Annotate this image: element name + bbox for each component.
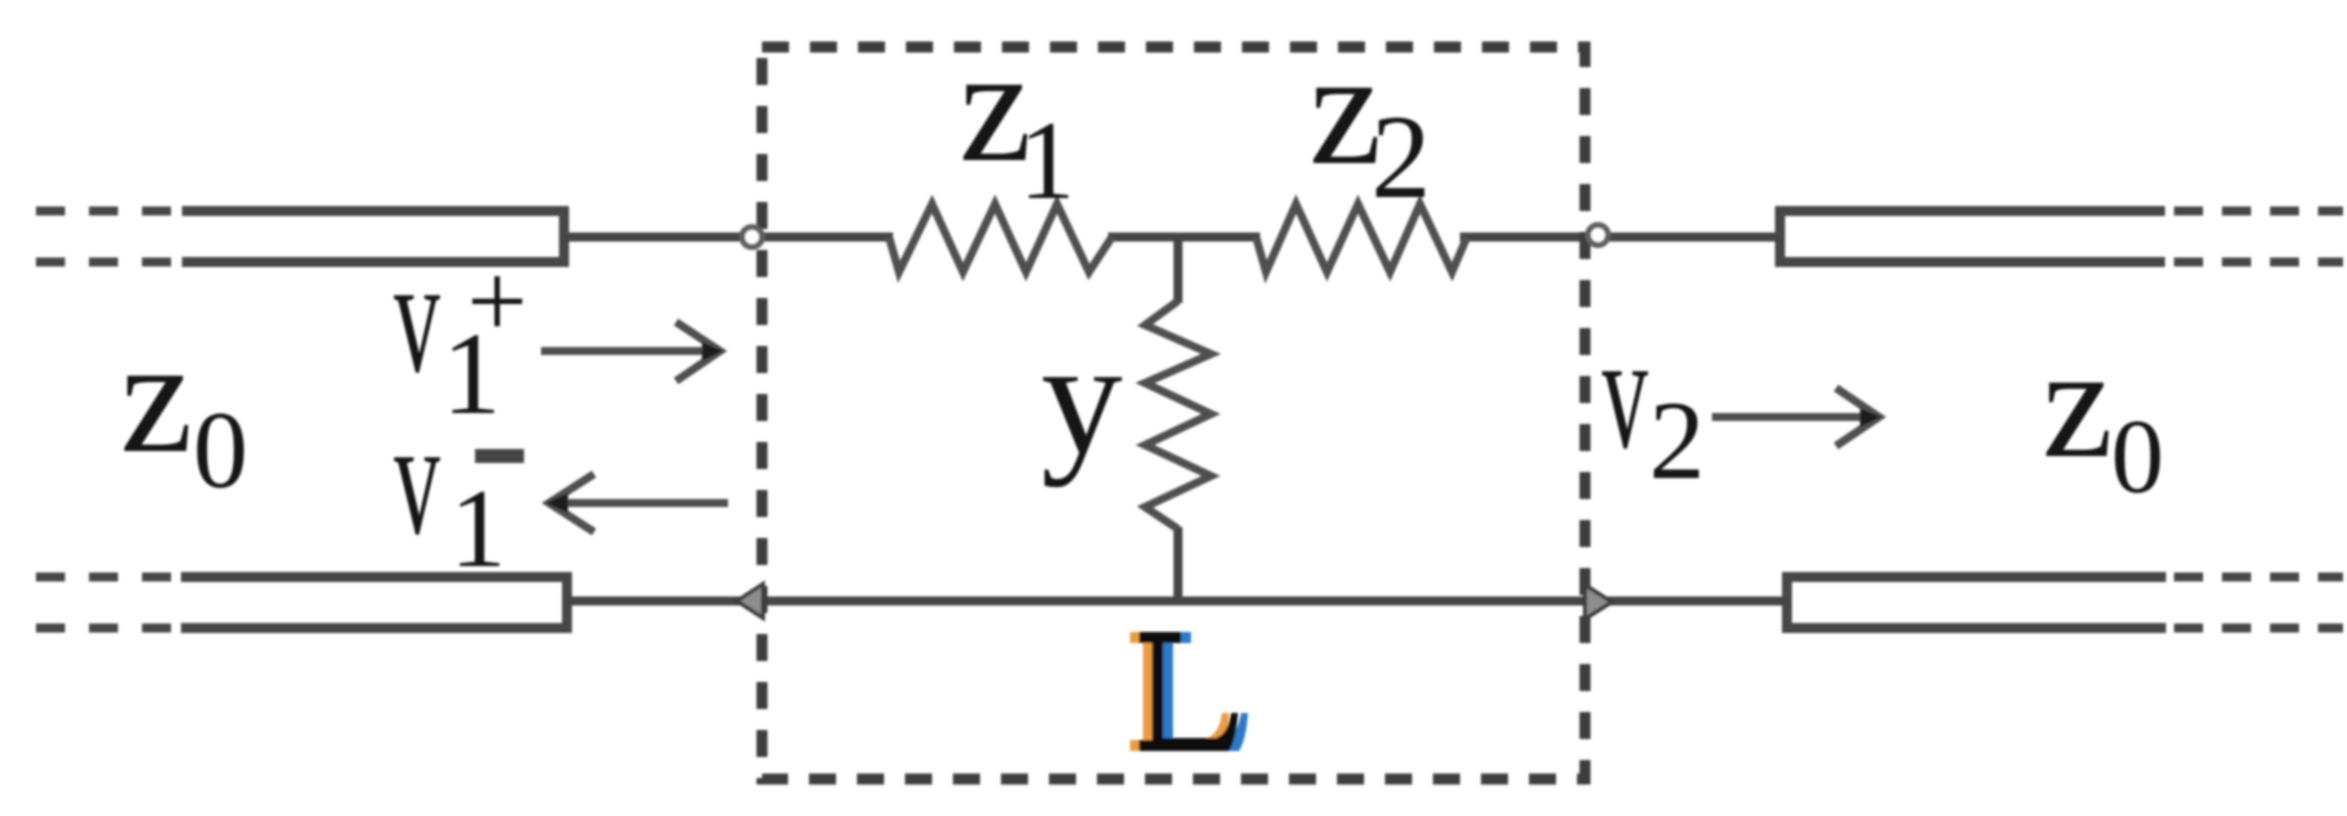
port 2 terminal triangle (bottom) bbox=[1585, 585, 1612, 619]
wire port2 top lead bbox=[1460, 233, 1779, 242]
port 1 terminal triangle (bottom) bbox=[737, 584, 763, 618]
svg-text:1: 1 bbox=[1019, 99, 1075, 223]
resistor Z2 bbox=[1256, 204, 1467, 272]
svg-text:z: z bbox=[2042, 313, 2113, 491]
arrow v2 (right) bbox=[1712, 388, 1879, 446]
wire bottom rail bbox=[567, 597, 1786, 606]
wire shunt top stub bbox=[1174, 233, 1183, 303]
svg-text:v: v bbox=[1602, 300, 1648, 483]
transmission line Z0 bottom-right bbox=[1786, 572, 2166, 633]
svg-text:v: v bbox=[394, 224, 440, 407]
arrow v1- (left) bbox=[549, 474, 728, 532]
svg-text:y: y bbox=[1041, 308, 1123, 488]
dashed box network L bbox=[762, 47, 1585, 779]
wire shunt bottom stub bbox=[1174, 527, 1183, 601]
resistor Z1 bbox=[889, 204, 1112, 272]
svg-text:0: 0 bbox=[193, 389, 248, 511]
wire top middle node segment bbox=[1108, 233, 1260, 242]
port 1 terminal circle (top) bbox=[742, 227, 762, 247]
svg-text:1: 1 bbox=[450, 467, 506, 591]
svg-text:v: v bbox=[394, 386, 440, 569]
transmission line lead dashes top-right bbox=[2174, 211, 2343, 262]
transmission line lead dashes bottom-left bbox=[36, 577, 181, 628]
label L (network) with colour fringes bbox=[1130, 632, 1248, 751]
svg-text:2: 2 bbox=[1371, 90, 1431, 223]
svg-text:2: 2 bbox=[1649, 379, 1705, 503]
wire port1 top lead bbox=[564, 233, 893, 242]
resistor Y (shunt) bbox=[1145, 301, 1211, 529]
port 2 terminal circle (top) bbox=[1588, 225, 1608, 245]
arrow v1+ (right) bbox=[541, 322, 720, 381]
svg-text:+: + bbox=[467, 243, 527, 361]
transmission line Z0 top-right bbox=[1779, 206, 2165, 267]
transmission line lead dashes top-left bbox=[36, 211, 182, 262]
svg-text:z: z bbox=[120, 306, 193, 487]
transmission line Z0 top-left bbox=[182, 206, 564, 267]
transmission line Z0 bottom-left bbox=[181, 572, 567, 633]
svg-text:0: 0 bbox=[2111, 398, 2164, 515]
transmission line lead dashes bottom-right bbox=[2174, 577, 2343, 628]
